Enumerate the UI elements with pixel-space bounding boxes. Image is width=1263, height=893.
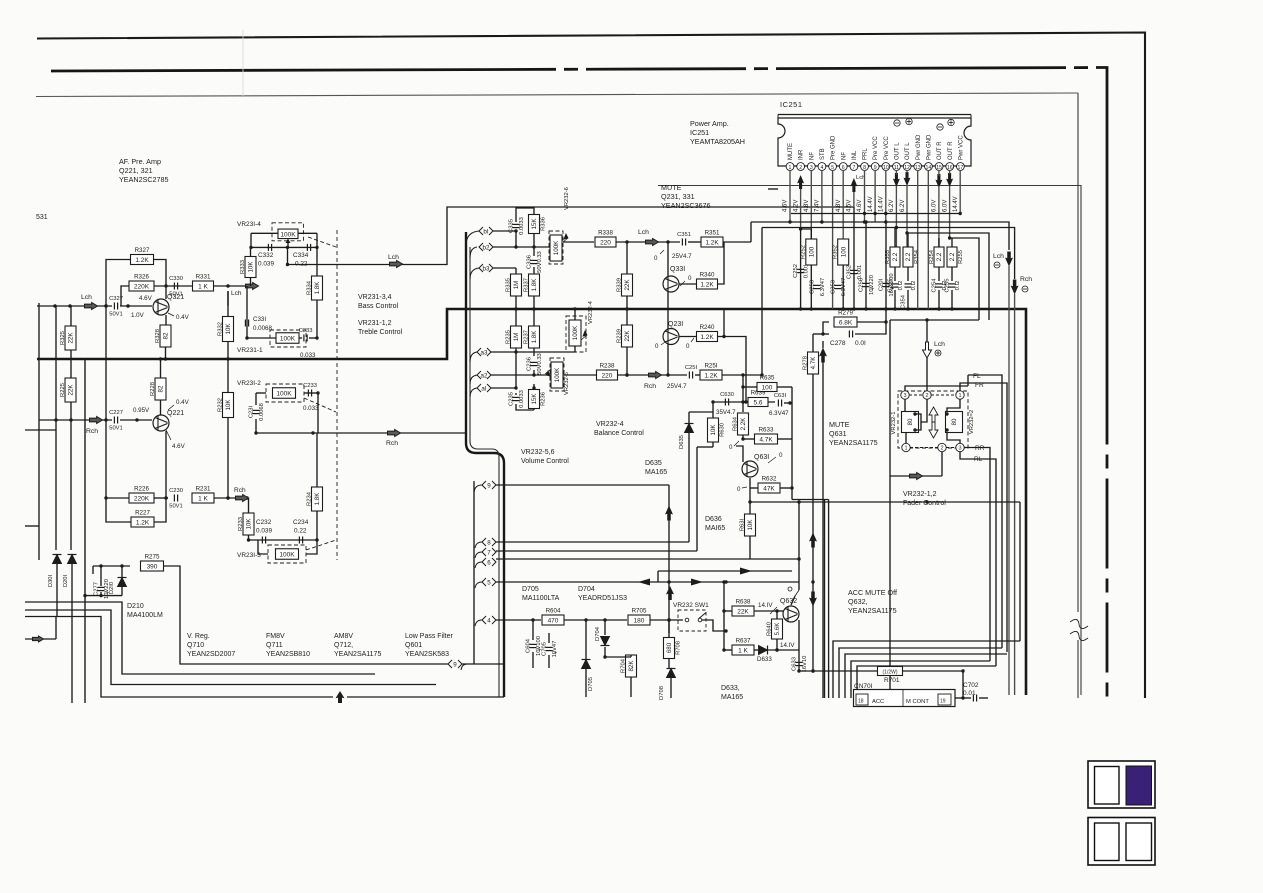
svg-text:0.001: 0.001 [857,265,863,280]
svg-text:R640: R640 [766,622,772,636]
connector b2 [479,243,493,251]
svg-text:YEAN2SA1175: YEAN2SA1175 [334,651,381,658]
svg-text:Q712,: Q712, [334,642,353,649]
svg-text:35V4.7: 35V4.7 [716,409,736,416]
label D636 MAI65 [705,516,725,532]
svg-text:C604: C604 [526,638,532,653]
svg-text:NF: NF [841,152,847,160]
svg-text:MA1100LTA: MA1100LTA [522,595,560,602]
transistor Q631 [742,461,758,477]
label VR232-5,6 Volume Control [521,449,569,465]
wire CN bundle 4 [851,661,990,698]
resistor R338 [595,230,616,248]
wire R333 to treble row [246,286,248,338]
connector a1 [477,384,491,392]
svg-text:4.6V: 4.6V [783,200,789,212]
svg-text:14.4V: 14.4V [953,196,959,212]
svg-text:OUT R: OUT R [948,141,954,160]
svg-text:Q711: Q711 [266,642,283,649]
svg-text:4.7K: 4.7K [810,356,817,370]
svg-text:100K: 100K [279,552,295,559]
wire Q631 base [736,446,743,462]
wire row9 [496,485,671,584]
svg-text:4.6V: 4.6V [857,200,863,212]
svg-text:Q33I: Q33I [670,266,685,273]
svg-text:R634: R634 [732,416,738,431]
capacitor C705 [542,641,558,658]
mark 0 Q231 base [655,342,665,350]
svg-text:7: 7 [487,549,491,556]
svg-text:10K: 10K [248,261,255,273]
resistor R705 [628,608,650,626]
svg-text:50V0.33: 50V0.33 [537,251,543,273]
wire FR out [960,383,1007,652]
svg-text:2: 2 [799,165,802,171]
wire row4b [564,618,627,621]
capacitor C334 [307,244,310,251]
arrow Rch after R231 [236,495,249,502]
capacitor C233 [303,383,317,397]
wire FL out [968,375,1002,648]
svg-text:VR232-6: VR232-6 [564,187,570,210]
svg-text:220: 220 [600,240,611,247]
capacitor C232 [262,537,265,544]
svg-text:Lch: Lch [934,341,945,348]
svg-text:1.2K: 1.2K [705,240,719,247]
svg-text:6.3V47: 6.3V47 [820,278,826,296]
wire R252 link [801,229,812,239]
wire R336 col [516,208,534,247]
wire row7 [496,550,697,552]
svg-text:R637: R637 [736,638,751,645]
svg-text:82: 82 [163,332,170,339]
label C232 value [256,519,272,535]
wire C277 column [83,564,122,597]
svg-text:IC251: IC251 [780,100,803,109]
wire stair 1 [25,602,375,674]
svg-text:100K: 100K [553,240,560,255]
svg-text:D705: D705 [522,586,539,593]
pin 14 IC251 Pwr GND [925,134,933,171]
arrow pin7 input Lch [850,178,857,192]
wire fader feed [926,358,928,391]
svg-text:R240: R240 [700,324,715,331]
label C702 [963,682,979,697]
wire fader out bottom [890,475,942,477]
resistor R355 [885,247,900,267]
wire Q632 collector [788,587,799,605]
arrow row5 left [643,581,645,583]
svg-text:AM8V: AM8V [334,633,353,640]
wire row5 [496,580,799,590]
svg-text:bI: bI [483,228,488,235]
wire C236 bot [532,370,535,377]
wire b3 stub [493,267,516,269]
svg-text:VR23I-4: VR23I-4 [237,221,261,228]
potentiometer VR232-4 [569,320,581,346]
capacitor C331v [245,320,248,327]
svg-text:R226: R226 [134,486,149,493]
capacitor C277 [94,579,110,599]
svg-text:47K: 47K [763,486,775,493]
svg-text:R255: R255 [958,250,964,264]
wire R252 bot [810,265,813,311]
svg-text:INR: INR [799,149,805,160]
svg-text:D704: D704 [578,586,595,593]
arrow Rch speaker [1011,280,1019,295]
capacitor C355 [888,279,904,293]
label VR231-1,2 Treble Control [358,320,403,336]
resistor R228 [150,378,166,400]
mark dash near pin1 [768,188,778,190]
resistor R254 [929,247,944,267]
label AM8V Q712 [334,633,381,658]
transistor Q221 [153,410,184,431]
svg-text:1 K: 1 K [738,648,748,655]
svg-text:Q601: Q601 [405,642,422,649]
svg-text:Pwr VCC: Pwr VCC [958,135,964,160]
wire pot6 to R338 [563,241,594,243]
svg-text:1: 1 [904,446,907,452]
capacitor C702 [973,695,976,702]
resistor R227 [131,510,154,528]
wire Q321 emitter [165,315,167,325]
dashed box VR231-2 [266,384,304,402]
svg-text:0.039: 0.039 [258,261,274,268]
capacitor C235 [509,390,525,408]
svg-text:100K: 100K [572,325,579,340]
svg-text:ACC: ACC [872,699,884,705]
arrow Lch after R331 [246,283,259,290]
label Lch speaker [993,253,1004,268]
pot VR232-4 wiper [581,331,587,340]
svg-text:C351: C351 [677,232,691,238]
wire left stub y430 [25,429,56,431]
wire VR231-4 top row [251,233,317,276]
svg-text:D635: D635 [645,460,662,467]
svg-text:C254: C254 [932,278,938,293]
wire Q331 top [666,240,669,276]
svg-text:C702: C702 [963,682,979,689]
svg-text:Rch: Rch [234,487,246,494]
resistor R340 [697,272,718,290]
arrow Lch fader [923,342,932,358]
wire R331 to Lch arrow [214,284,249,287]
svg-text:OUT R: OUT R [937,141,943,160]
capacitor C327 [109,296,123,318]
transistor Q231 [663,329,679,345]
capacitor C230 [169,488,183,510]
svg-text:100: 100 [762,385,773,392]
capacitor C256 [859,275,875,295]
wire pin9 drop [874,170,876,222]
wire bass mid row [227,291,229,306]
wire R327 left leg [104,260,130,421]
potentiometer VR232-2 track [946,412,963,433]
svg-text:C278: C278 [830,340,846,347]
svg-text:50V1: 50V1 [109,312,123,318]
wire D210 top [120,564,123,595]
wire RL out [960,452,996,666]
capacitor C333 [299,328,313,342]
svg-text:0.01: 0.01 [963,690,976,697]
wire R227 right leg [154,498,166,522]
svg-text:D636: D636 [705,516,722,523]
arrow Lch out [390,261,403,268]
wire b2 stub [493,246,513,248]
svg-text:R630: R630 [720,423,726,437]
svg-text:b2: b2 [483,244,490,251]
potentiometer VR232-5 [551,362,563,388]
wire VR231-3 cap row [247,538,319,541]
capacitor C252 [793,264,809,279]
scan crease artifact [242,30,244,96]
capacitor C201 [879,273,895,296]
svg-text:R225: R225 [60,383,66,397]
svg-text:Q221, 321: Q221, 321 [119,166,153,175]
wire R275 to conn9 [164,566,449,664]
svg-text:R331: R331 [196,274,211,281]
diode D708 [667,669,676,678]
svg-text:M CONT: M CONT [906,699,929,705]
wire row4 [496,618,541,621]
wire VR232-1 track wires [905,399,921,443]
svg-text:D708: D708 [659,686,665,700]
svg-text:R235: R235 [505,330,511,344]
wire R701 row [799,669,878,672]
wire pot4 legs [516,307,577,352]
svg-text:C630: C630 [720,392,734,398]
label D705 MA1100LTA [522,586,560,602]
svg-text:YEAN2SC2785: YEAN2SC2785 [119,175,169,184]
wire R351 right [723,241,751,243]
wire pin1 drop [789,170,791,222]
svg-text:aI: aI [481,385,486,392]
svg-text:0: 0 [655,343,659,350]
wire pin10 drop [885,170,887,222]
svg-text:100K: 100K [554,367,561,382]
svg-text:19: 19 [940,699,946,705]
svg-text:R327: R327 [135,247,150,254]
svg-text:C234: C234 [293,519,309,526]
svg-text:4.8V: 4.8V [804,200,810,212]
svg-text:OUT L: OUT L [895,142,901,160]
page inner border line [36,93,1078,97]
resistor R634 [732,413,748,435]
svg-text:D210: D210 [127,603,144,610]
resistor R238 [597,363,618,381]
svg-text:RR: RR [975,445,985,452]
wire R635 row [741,385,757,388]
svg-text:VR231-1: VR231-1 [237,347,263,354]
resistor R708 [664,638,682,659]
wire R234 link [317,393,318,487]
resistor R632 [758,476,780,494]
wire pin5 drop [832,170,834,309]
label D633 MA165 [721,685,743,701]
mark 0 R632 [737,486,747,493]
pin 2 VR232-2 [938,443,946,451]
svg-text:R701: R701 [884,677,900,684]
resistor R235 [505,326,521,348]
svg-text:VR232=2: VR232=2 [969,410,975,434]
resistor R631 [739,514,755,536]
resistor R337 [523,274,539,296]
diode D704 sym [601,637,610,646]
svg-text:Pre VCC: Pre VCC [873,136,879,160]
capacitor C352 [847,265,863,280]
svg-text:10K: 10K [225,323,232,335]
pin 11 IC251 OUT L [893,142,901,171]
svg-text:Q710: Q710 [187,642,204,649]
resistor R635 [757,375,777,392]
svg-text:C233: C233 [303,383,317,389]
svg-text:R352: R352 [833,245,839,259]
resistor R251 [700,363,722,381]
resistor R328 [155,325,171,347]
resistor R630 [708,418,726,442]
wire net y238 [948,236,979,320]
capacitor C255 [945,279,961,293]
capacitor C330 [169,276,183,298]
svg-text:R354: R354 [914,249,920,264]
svg-text:R275: R275 [145,554,160,561]
capacitor C236 [527,353,543,375]
svg-text:a2: a2 [481,372,488,379]
capacitor C253 [810,278,826,296]
dashed box VR231-4 [272,223,304,241]
dashed box VR231-3 [268,545,306,563]
pin 1 VR232-2 [956,391,964,399]
pot VR232-5 wiper [545,369,551,376]
svg-text:C332: C332 [258,252,274,259]
wire R240 wiring [679,309,746,402]
wire pin16 drop [949,170,951,238]
label Low Pass Filter Q601 [405,633,454,658]
wire C251 to R251 [695,374,700,376]
svg-text:MAI65: MAI65 [705,525,725,532]
svg-text:6.0V: 6.0V [942,200,948,212]
resistor R231 [192,486,214,504]
svg-text:50V1: 50V1 [169,504,183,510]
page outer border line [37,33,1145,699]
wire R633 wiring [743,438,792,440]
svg-text:14.IV: 14.IV [780,642,795,649]
resistor R333 [240,257,256,278]
svg-text:Q23I: Q23I [668,321,683,328]
arrow Lch input [85,303,98,310]
wire R226 left leg [104,418,131,522]
svg-text:25V4.7: 25V4.7 [672,253,692,260]
wire Rch speaker drop [1014,294,1016,695]
svg-text:4.7K: 4.7K [759,437,773,444]
wire R237 col [533,309,535,356]
svg-text:25V4.7: 25V4.7 [667,383,687,390]
wire R234 bottom [316,511,318,540]
capacitor C353 [831,278,847,296]
svg-text:100K: 100K [280,231,296,238]
resistor R331 [193,274,214,292]
svg-text:YEADRD51JS3: YEADRD51JS3 [578,595,627,602]
wire x670 lower [668,620,670,637]
svg-text:9: 9 [487,482,491,489]
svg-text:C235: C235 [509,392,515,406]
wire R327 right leg [154,260,167,282]
wire R701 right [902,669,965,698]
svg-text:4.5V: 4.5V [847,200,853,212]
pin 3 VR232-2 [956,443,964,451]
capacitor C351 [677,232,691,246]
resistor R638 [732,599,754,617]
svg-text:Rch: Rch [86,428,98,435]
wire mute arrow stub [822,341,824,698]
wire R254 col [937,238,940,311]
resistor R233 [238,513,254,535]
svg-text:6.3V47: 6.3V47 [769,410,789,417]
wire left edge arrow [25,617,56,640]
svg-text:R25I: R25I [704,363,717,370]
svg-text:82: 82 [158,385,165,392]
wire D708 bottom [670,678,672,698]
svg-text:b3: b3 [483,265,490,272]
wire pin15 drop [938,170,940,247]
svg-text:D635: D635 [679,435,685,449]
resistor R639 [748,390,768,407]
wire mute drop link [1019,502,1021,641]
pin 1 VR232-1 [902,443,910,451]
wire thick feed bus [466,232,504,697]
wire VR231-4 cap row [249,246,318,249]
svg-text:22K: 22K [624,330,631,342]
resistor R255 [947,247,964,267]
wire R640 col [775,611,778,652]
dashed link VR231-2 [304,398,336,412]
svg-text:AF. Pre. Amp: AF. Pre. Amp [119,157,161,166]
svg-text:0.4V: 0.4V [176,399,190,406]
svg-text:Q631: Q631 [829,429,847,438]
connector 8 [482,538,496,546]
svg-text:3: 3 [903,393,906,399]
svg-text:4.2V: 4.2V [793,200,799,212]
svg-text:C23I: C23I [249,405,255,418]
svg-text:R340: R340 [700,272,715,279]
svg-text:NF: NF [809,152,815,160]
svg-text:C236: C236 [527,357,533,371]
svg-text:0.033: 0.033 [300,352,316,359]
svg-text:14.4V: 14.4V [868,196,874,212]
svg-text:Lch: Lch [388,254,399,261]
transistor Q321 [153,294,184,315]
resistor R325 [60,326,76,350]
svg-text:R236: R236 [541,392,547,406]
svg-text:100: 100 [840,246,847,257]
wire R255 col [950,238,953,311]
connector a2 [477,371,491,379]
label 4.6V Q221 [166,430,186,450]
potentiometer VR231-2 [273,388,296,399]
svg-text:2.2: 2.2 [892,252,899,261]
svg-text:R338: R338 [598,230,613,237]
wire C235 col [516,393,534,410]
svg-text:YEAN2SC3676: YEAN2SC3676 [661,201,711,210]
resistor R234 [306,487,322,511]
pin 17 IC251 Pwr VCC [957,135,965,171]
capacitor C251 [685,365,698,379]
arrow x813 up [809,533,817,548]
svg-text:YEAN2SD2007: YEAN2SD2007 [187,651,235,658]
wire stair 3 [25,617,333,698]
svg-text:8: 8 [487,539,491,546]
